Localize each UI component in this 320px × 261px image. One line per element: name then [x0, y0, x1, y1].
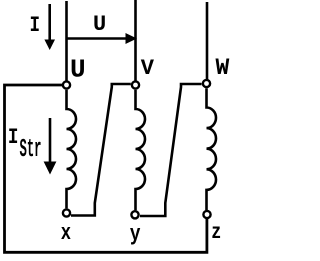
- svg-text:y: y: [130, 223, 141, 248]
- svg-text:U: U: [70, 55, 86, 85]
- svg-text:x: x: [61, 221, 71, 246]
- svg-text:W: W: [216, 55, 230, 81]
- wire: delta closing loop from node U left, down, along bottom, up to node z: [5, 85, 207, 252]
- node W (terminal circle): [203, 80, 210, 87]
- svg-text:I: I: [8, 124, 19, 149]
- winding coil V-y: [136, 90, 146, 210]
- winding coil W-z: [207, 88, 217, 210]
- arrow I Str (downward): [44, 118, 57, 175]
- node z (terminal circle): [203, 211, 210, 218]
- svg-text:V: V: [141, 56, 155, 81]
- svg-text:Str: Str: [20, 136, 42, 165]
- svg-text:I: I: [30, 12, 41, 37]
- node x (terminal circle): [63, 209, 70, 216]
- arrow U (voltage arrow from L1 to L2): [67, 33, 137, 44]
- node V (terminal circle): [132, 81, 139, 88]
- phase line L1 (to terminal U): [65, 1, 68, 81]
- arrow I (line current, downward): [44, 4, 55, 50]
- label I Str (phase/strand current): [8, 124, 42, 165]
- node y (terminal circle): [131, 211, 138, 218]
- phase line L2 (to terminal V): [134, 0, 137, 81]
- wire: connector y to W (horizontal to W, diagonal down, to node y): [140, 84, 202, 216]
- svg-text:U: U: [93, 12, 106, 37]
- wire: connector x to V (horizontal to V, diagonal down, to node x): [71, 84, 131, 216]
- svg-text:z: z: [211, 220, 221, 244]
- node U (terminal circle): [63, 81, 70, 88]
- phase line L3 (to terminal W): [206, 2, 209, 80]
- winding coil U-x: [67, 90, 77, 209]
